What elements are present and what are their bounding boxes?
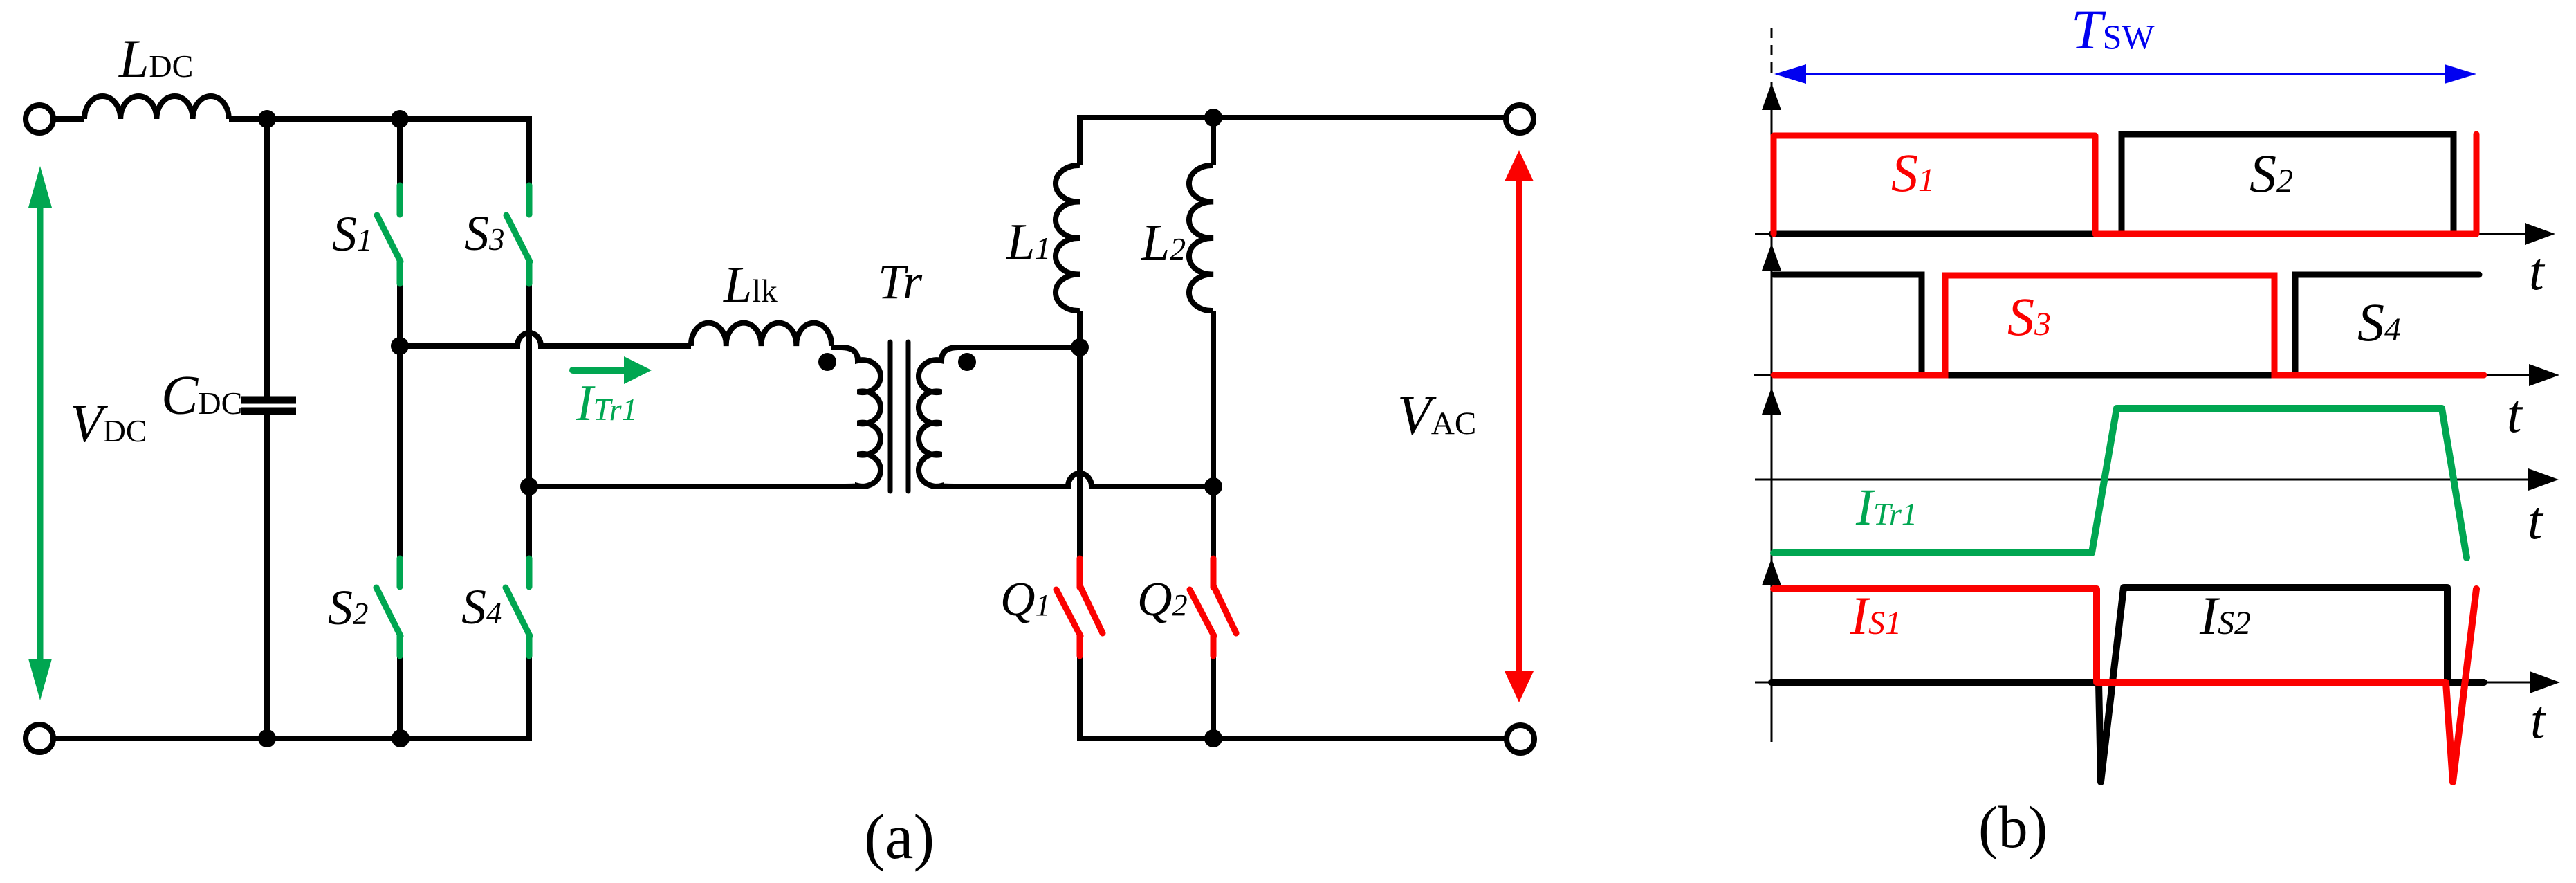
axis vertical line — [1771, 82, 1773, 742]
inductor L2 — [1189, 165, 1213, 311]
wire top rail left — [53, 116, 84, 122]
svg-text:TSW: TSW — [2071, 0, 2155, 61]
dot primary polarity — [818, 353, 836, 371]
arrow ITr1 — [573, 356, 652, 384]
axis arrowhead v row4 — [1762, 558, 1781, 585]
wire bridge mid-lower — [529, 484, 768, 489]
axis arrowhead h row2 — [2529, 364, 2559, 386]
svg-text:Llk: Llk — [723, 257, 778, 313]
wire S3-S4 leg middle — [526, 284, 532, 558]
axis row3 horizontal — [1755, 479, 2530, 481]
inductor LDC — [84, 96, 229, 119]
svg-text:t: t — [2529, 241, 2546, 301]
waveform S2 black row1 — [1772, 134, 2466, 234]
wire S1-S2 leg middle — [397, 284, 403, 558]
waveform IS2 black row4 — [1772, 588, 2484, 782]
svg-text:S1: S1 — [332, 206, 373, 262]
terminal DC- — [26, 725, 53, 752]
terminal AC+ — [1506, 105, 1534, 133]
svg-text:S4: S4 — [2357, 292, 2401, 352]
wire S1 leg top — [397, 119, 403, 185]
node L2 top — [1204, 109, 1222, 127]
PART B : waveforms — [1754, 28, 2532, 742]
wire top rail right — [1080, 115, 1505, 120]
wire Q1 bottom — [1077, 656, 1083, 741]
switch Q1 — [1056, 558, 1103, 656]
svg-text:CDC: CDC — [161, 365, 242, 426]
svg-text:S2: S2 — [2250, 143, 2293, 203]
wire L1 leg top — [1077, 115, 1083, 165]
node S1-S2 mid — [391, 337, 409, 355]
terminal DC+ — [26, 105, 53, 133]
waveform S3 red row2 — [1774, 275, 2484, 375]
waveform IS1 red row4 — [1774, 589, 2476, 782]
node S1 top — [391, 110, 409, 128]
switches red — [1056, 558, 1236, 656]
svg-text:S2: S2 — [328, 580, 369, 635]
node L1 bottom — [1071, 338, 1089, 356]
transformer Tr primary winding — [768, 347, 881, 486]
wire S4 leg bottom — [526, 656, 532, 741]
transformer Tr secondary winding — [919, 347, 1080, 486]
LABELS part a — [70, 28, 2048, 872]
wire L1-Q1 leg — [1077, 311, 1083, 558]
waveform S1 red row1 — [1774, 134, 2476, 234]
axis arrowhead v row2 — [1762, 244, 1781, 271]
switch S3 — [506, 185, 530, 284]
svg-text:VAC: VAC — [1397, 385, 1476, 446]
wire L2 leg top — [1211, 118, 1216, 165]
node L2 bottom — [1204, 477, 1222, 495]
switch S4 — [506, 558, 530, 656]
axis row4 horizontal — [1755, 682, 2532, 684]
wire S2 leg bottom — [397, 656, 403, 738]
svg-text:S3: S3 — [2007, 286, 2051, 347]
waveform S4 black row2 — [1774, 275, 2479, 375]
svg-text:IS2: IS2 — [2199, 585, 2251, 646]
switch S2 — [376, 558, 401, 656]
svg-text:t: t — [2530, 689, 2547, 749]
transformer Tr core — [890, 342, 908, 491]
waveform ITr1 green row3 — [1774, 408, 2467, 558]
wire CDC leg lower — [264, 415, 270, 738]
svg-text:Tr: Tr — [878, 254, 923, 309]
wire secondary bottom with hop — [1002, 473, 1213, 486]
wire L2-Q2 leg — [1211, 311, 1216, 558]
svg-text:LDC: LDC — [118, 28, 193, 89]
wire bottom rail right — [1077, 736, 1506, 741]
axis arrowhead v row3 — [1762, 388, 1781, 415]
svg-text:S4: S4 — [461, 579, 502, 635]
svg-text:Q1: Q1 — [1000, 573, 1051, 626]
axis arrowhead h row3 — [2528, 468, 2559, 491]
wire bottom rail left — [53, 736, 529, 741]
inductor Llk — [691, 323, 831, 346]
node Q2 bottom — [1204, 729, 1222, 747]
svg-text:S1: S1 — [1891, 143, 1935, 203]
PART A : converter schematic — [26, 96, 1534, 753]
wire bridge mid-left with hop — [400, 333, 691, 346]
node S2 bottom — [392, 729, 410, 747]
axis arrowhead v row1 — [1762, 83, 1781, 110]
svg-text:ITr1: ITr1 — [576, 375, 638, 432]
switch Q2 — [1190, 558, 1236, 656]
switch S1 — [377, 185, 401, 284]
svg-text:L1: L1 — [1006, 214, 1051, 271]
arrow VDC — [28, 166, 52, 700]
dot secondary polarity — [958, 353, 976, 371]
terminal AC- — [1507, 725, 1534, 753]
axis row2 horizontal — [1754, 374, 2530, 376]
inductor L1 — [1056, 165, 1080, 311]
switches green — [376, 185, 530, 656]
svg-text:t: t — [2507, 383, 2523, 444]
axis row1 horizontal — [1755, 233, 2526, 235]
wire top rail to S3 leg — [229, 119, 529, 185]
wire Q2 bottom — [1211, 656, 1216, 738]
axis arrowhead h row4 — [2530, 671, 2560, 693]
node CDC bottom — [258, 729, 276, 747]
axis vertical dashed — [1771, 28, 1773, 78]
svg-text:L2: L2 — [1141, 215, 1186, 271]
capacitor CDC plates — [241, 400, 296, 411]
node LDC-CDC — [258, 110, 276, 128]
node S3-S4 mid — [520, 477, 538, 495]
arrow TSW blue — [1774, 64, 2476, 84]
svg-text:ITr1: ITr1 — [1855, 479, 1917, 536]
svg-text:S3: S3 — [464, 206, 505, 261]
svg-text:VDC: VDC — [70, 393, 147, 453]
svg-text:IS1: IS1 — [1850, 585, 1902, 646]
svg-text:(b): (b) — [1978, 794, 2048, 860]
arrow VAC — [1505, 150, 1534, 702]
svg-text:t: t — [2528, 490, 2544, 550]
svg-text:Q2: Q2 — [1137, 573, 1188, 626]
svg-text:(a): (a) — [864, 801, 935, 872]
wire CDC leg upper — [264, 119, 270, 397]
axis arrowhead h row1 — [2525, 223, 2555, 245]
